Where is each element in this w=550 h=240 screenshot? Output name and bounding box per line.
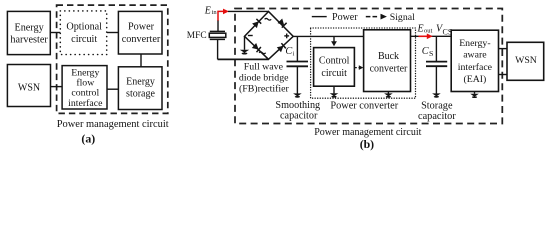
svg-text:interface: interface <box>458 62 493 73</box>
label: Smoothing capacitor <box>275 100 320 121</box>
svg-text:i: i <box>293 50 295 57</box>
diode D2 upper-right <box>278 19 287 28</box>
legend power line <box>312 16 327 18</box>
svg-text:aware: aware <box>463 50 487 61</box>
svg-text:capacitor: capacitor <box>280 110 318 121</box>
svg-text:(a): (a) <box>81 132 95 146</box>
dashed signal arrow control to buck <box>354 65 363 70</box>
block: Energy storage <box>118 67 162 110</box>
plus rail: bridge to buck <box>293 35 363 37</box>
ground under EAI <box>470 92 479 99</box>
svg-text:(b): (b) <box>360 137 374 151</box>
capacitor C_i <box>287 36 309 93</box>
ground under control circuit <box>330 86 339 97</box>
svg-text:S: S <box>429 49 433 58</box>
wire: buck output to EAI <box>411 35 452 37</box>
wire: E_in to bridge top <box>228 10 269 12</box>
ground under C_i <box>293 93 302 97</box>
svg-text:circuit: circuit <box>321 68 347 79</box>
block: Energy harvester <box>7 11 50 54</box>
svg-text:WSN: WSN <box>18 83 40 94</box>
svg-text:Power: Power <box>332 12 358 23</box>
svg-text:interface: interface <box>68 98 103 109</box>
capacitor C_S <box>426 36 447 93</box>
block: Energy-aware interface (EAI) <box>451 30 498 91</box>
diode D4 lower-right <box>277 43 286 52</box>
svg-text:storage: storage <box>126 89 155 100</box>
ground at bridge left vertex <box>240 36 249 54</box>
svg-text:diode bridge: diode bridge <box>239 73 289 84</box>
wire: EAI to WSN upper <box>499 48 508 50</box>
wire: optional circuit to power converter <box>107 32 118 34</box>
block: WSN (a) <box>7 65 50 107</box>
svg-text:converter: converter <box>122 34 161 45</box>
svg-text:harvester: harvester <box>10 35 48 46</box>
legend signal dashed arrow <box>366 14 387 20</box>
node - DC negative at left vertex <box>248 35 253 37</box>
dashed box: power management circuit (b) <box>235 9 502 124</box>
svg-text:E: E <box>417 24 424 35</box>
svg-text:converter: converter <box>370 63 408 74</box>
wire: energy flow control interface to energy storage <box>107 88 118 90</box>
svg-text:C: C <box>285 46 292 57</box>
red arrow E_in <box>218 9 229 21</box>
svg-text:(EAI): (EAI) <box>463 74 486 85</box>
wire: WSN to energy flow control interface <box>51 86 63 88</box>
svg-text:Energy: Energy <box>126 76 155 87</box>
label: Full wave diode bridge (FB)rectifier <box>239 61 290 94</box>
node + DC positive at right vertex <box>284 34 289 39</box>
bottom rail MFC to bridge bottom <box>218 58 269 60</box>
power feed arrow into control circuit <box>331 36 337 46</box>
diode bridge diamond <box>245 12 294 60</box>
svg-text:in: in <box>212 9 218 16</box>
svg-text:Power converter: Power converter <box>330 100 398 111</box>
svg-text:Energy-: Energy- <box>459 38 490 49</box>
block: Power converter (a) <box>118 11 162 54</box>
node ~ AC top of bridge <box>265 18 272 20</box>
svg-text:WSN: WSN <box>515 55 537 66</box>
svg-text:(FB)rectifier: (FB)rectifier <box>239 84 290 95</box>
MFC cell symbol <box>209 20 226 59</box>
diode D3 lower-left <box>252 43 261 52</box>
dashed box: power management circuit (a) <box>57 5 168 113</box>
svg-text:E: E <box>204 5 211 16</box>
svg-text:Full wave: Full wave <box>244 61 284 72</box>
svg-text:Power management circuit: Power management circuit <box>57 119 169 130</box>
block: WSN (b) <box>507 42 544 80</box>
svg-text:Control: Control <box>319 56 350 67</box>
red arrow E_out <box>419 34 433 40</box>
wire: harvester to optional circuit <box>50 32 60 34</box>
block: Control circuit <box>314 48 355 87</box>
block: Energy flow control interface <box>62 66 107 109</box>
label: Storage capacitor <box>418 101 456 122</box>
block: Optional circuit (dotted) <box>60 11 106 55</box>
svg-text:Energy: Energy <box>14 22 44 33</box>
svg-text:Signal: Signal <box>390 12 415 23</box>
wire: power converter to energy storage <box>140 54 142 67</box>
svg-text:Optional: Optional <box>66 21 102 32</box>
svg-text:circuit: circuit <box>71 34 97 45</box>
dotted box: Power converter (b) <box>311 28 416 98</box>
svg-text:out: out <box>424 28 433 35</box>
svg-text:Buck: Buck <box>378 51 399 62</box>
svg-text:capacitor: capacitor <box>418 111 456 122</box>
svg-text:C: C <box>422 46 429 57</box>
svg-text:Power: Power <box>128 22 155 33</box>
diode D1 upper-left <box>252 19 261 28</box>
svg-text:MFC: MFC <box>187 31 207 41</box>
ground under C_S <box>432 93 441 97</box>
block: Buck converter <box>364 30 411 92</box>
ground under buck converter <box>384 92 393 98</box>
node ~ AC bottom of bridge <box>259 52 266 54</box>
wire: EAI to WSN lower <box>499 74 508 76</box>
